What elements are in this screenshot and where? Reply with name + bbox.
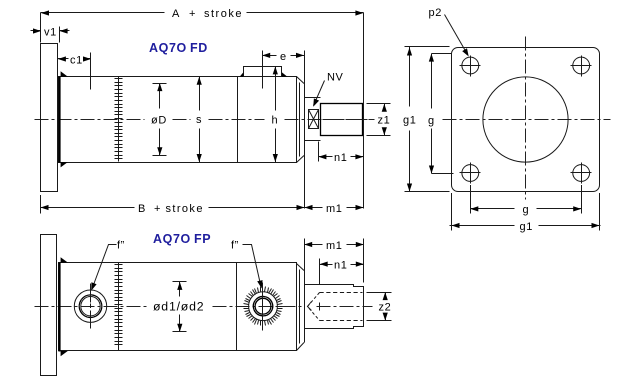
dimension s <box>196 77 202 163</box>
port f right: bore circle <box>255 298 271 314</box>
svg-text:ød1/ød2: ød1/ød2 <box>153 300 204 314</box>
dimension g bottom <box>470 185 581 216</box>
bolt hole top-right <box>571 56 592 77</box>
leader NV <box>313 81 324 107</box>
port boss (FD) <box>244 67 282 77</box>
svg-text:stroke: stroke <box>166 203 204 215</box>
title AQ7O FD <box>149 41 208 55</box>
port f right: thread circle <box>250 293 277 320</box>
tie-rod thread band (FP) <box>115 263 123 351</box>
dimension m1 (FD) <box>305 203 364 215</box>
dimension v1 <box>31 27 70 43</box>
svg-text:v1: v1 <box>44 27 57 39</box>
head section line (FD) <box>237 77 239 163</box>
weld fillet top (FP) <box>61 257 68 262</box>
port f left: thread circle <box>75 290 106 321</box>
svg-text:AQ7O: AQ7O <box>153 232 191 246</box>
flange (FD view) <box>41 44 58 192</box>
flange (FP view) <box>41 235 57 376</box>
svg-text:AQ7O: AQ7O <box>149 41 187 55</box>
label f-left <box>117 240 125 252</box>
dimension z2 <box>367 292 392 321</box>
svg-text:n1: n1 <box>334 152 347 164</box>
centerline (FP view axis) <box>35 306 373 308</box>
centerline (FD view axis) <box>35 119 375 121</box>
cylinder body (FD view) <box>59 77 297 163</box>
head chamfers (FP) <box>297 264 305 351</box>
dimension g left <box>428 54 454 174</box>
port f left: bore circle <box>81 297 100 316</box>
flange horizontal centerline <box>443 119 611 121</box>
bolt hole top-left <box>460 56 481 77</box>
title AQ7O FP <box>153 232 211 246</box>
dimension B + stroke <box>41 195 305 215</box>
rod coupling z2 outline <box>305 285 364 329</box>
svg-text:FP: FP <box>194 232 211 246</box>
svg-text:f”: f” <box>231 240 239 252</box>
leader p2 <box>445 15 469 57</box>
head face / extension (FP) <box>304 239 306 343</box>
svg-text:z1: z1 <box>378 114 391 126</box>
z2 cone tip chevron <box>308 302 312 311</box>
svg-text:m1: m1 <box>326 203 342 215</box>
port f left: crosshair <box>89 284 94 329</box>
svg-text:+: + <box>189 8 196 20</box>
dimension oD <box>151 83 167 155</box>
svg-text:c1: c1 <box>70 55 83 67</box>
svg-text:NV: NV <box>327 72 344 84</box>
svg-text:FD: FD <box>190 41 208 55</box>
nut outline (FD) <box>305 98 321 141</box>
tie-rod thread band (FD) <box>115 77 123 162</box>
flange plate (end view) <box>452 48 600 192</box>
dimension od1/od2 <box>153 282 204 332</box>
bore circle <box>483 77 568 162</box>
label NV <box>327 72 344 84</box>
svg-text:A: A <box>172 8 180 20</box>
dimension m1 (FP) <box>304 239 364 283</box>
head section line (FP) <box>236 263 238 351</box>
rod neck face / extension line (FD) <box>304 51 306 209</box>
bolt hole bottom-right <box>571 163 592 184</box>
dimension n1 (FP) <box>320 259 364 285</box>
dimension h <box>272 66 279 162</box>
dimension e <box>262 51 304 89</box>
leader f-right <box>243 245 263 289</box>
bolt hole bottom-left <box>460 163 481 184</box>
svg-text:øD: øD <box>151 115 167 127</box>
svg-text:s: s <box>196 114 202 126</box>
svg-text:e: e <box>280 51 287 63</box>
label f-right <box>231 240 239 252</box>
boss fillet right <box>282 72 288 77</box>
port f right: crosshair <box>262 283 264 331</box>
dimension n1 <box>318 142 363 165</box>
label p2 <box>429 7 442 19</box>
svg-text:B: B <box>138 203 146 215</box>
weld fillet top (FD) <box>61 71 68 76</box>
svg-text:n1: n1 <box>334 259 347 271</box>
port f left: outer circle <box>74 290 106 322</box>
head chamfers (FD) <box>297 77 305 163</box>
port f right: base circle <box>249 292 278 321</box>
port f right: serration ring <box>244 287 283 326</box>
dimension c1 <box>58 53 92 90</box>
weld fillet bottom (FP) <box>61 351 68 356</box>
svg-text:z2: z2 <box>379 301 392 313</box>
dimension A + stroke <box>41 8 364 209</box>
weld fillet bottom (FD) <box>61 162 68 167</box>
dimension g1 left <box>403 47 450 192</box>
needle valve NV crossed box <box>309 110 319 129</box>
svg-text:m1: m1 <box>326 240 342 252</box>
leader f-left <box>91 245 116 291</box>
dimension z1 <box>367 104 391 136</box>
svg-text:+: + <box>154 203 161 215</box>
dimension g1 bottom <box>450 193 601 233</box>
piston rod (FD) <box>321 104 375 136</box>
svg-text:g: g <box>428 115 435 127</box>
boss fillet left <box>240 72 244 77</box>
flange vertical centerline <box>525 37 527 200</box>
z2 drill cone dashed <box>308 293 320 321</box>
svg-text:g1: g1 <box>520 221 533 233</box>
svg-text:h: h <box>272 115 279 127</box>
z2 internal thread dashes <box>320 293 363 321</box>
cylinder body (FP view) <box>59 263 297 352</box>
svg-text:stroke: stroke <box>204 8 243 20</box>
svg-text:g1: g1 <box>403 115 416 127</box>
svg-text:g: g <box>523 204 530 216</box>
z2 thread start tick <box>319 303 321 311</box>
svg-text:f”: f” <box>117 240 125 252</box>
svg-text:p2: p2 <box>429 7 442 19</box>
